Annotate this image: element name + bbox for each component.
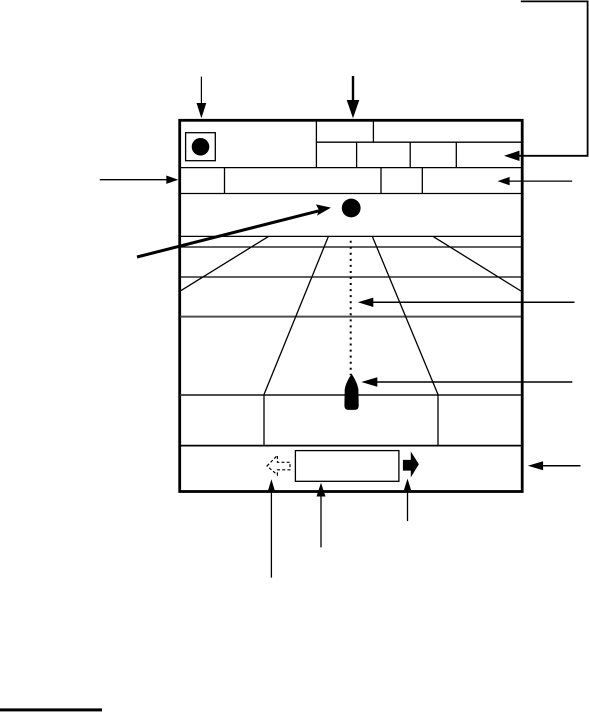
- footnote rule: [0, 708, 102, 711]
- left arrow shaft: [100, 179, 168, 181]
- row2 divider x422: [421, 168, 423, 194]
- right small arrow head: [498, 177, 510, 185]
- top right connector line: [519, 1, 588, 155]
- icon box: [186, 133, 216, 161]
- range line y395 (gray): [181, 394, 522, 396]
- up arrow left shaft: [270, 490, 272, 578]
- bottom right arrow shaft: [541, 465, 581, 467]
- down arrow 2 shaft: [352, 76, 354, 101]
- header divider x410: [409, 142, 411, 167]
- value rectangle: [295, 451, 399, 482]
- road outer right edge: [433, 236, 521, 291]
- header line y167: [181, 167, 522, 169]
- row2 divider x224: [224, 168, 226, 194]
- lane divider x264: [263, 395, 265, 446]
- bottom right arrow head: [528, 461, 543, 470]
- header divider x356: [356, 142, 358, 167]
- bottom bar top line y445: [181, 445, 522, 447]
- diagonal arrow shaft: [137, 211, 319, 257]
- header divider x456: [455, 142, 457, 167]
- range line y247: [181, 246, 522, 248]
- dashed outline arrow: [267, 455, 290, 475]
- waypoint circle: [342, 199, 361, 218]
- header divider x373: [372, 120, 374, 142]
- course dotted line: [350, 241, 352, 376]
- down arrow 2 head: [347, 100, 360, 118]
- header line y193: [181, 193, 522, 195]
- up arrow right shaft: [407, 489, 409, 521]
- up arrow middle shaft: [320, 495, 322, 547]
- diagonal arrow head: [316, 204, 331, 215]
- arrow to boat head: [361, 377, 377, 386]
- left arrow head: [166, 176, 178, 184]
- road outer left edge: [181, 236, 269, 290]
- arrow to boat shaft: [375, 381, 572, 383]
- header line y142: [316, 141, 521, 143]
- lane divider x438: [437, 395, 439, 446]
- right small arrow shaft: [509, 180, 573, 182]
- range line y277: [181, 276, 522, 278]
- up arrow right head: [404, 479, 411, 491]
- horizon line y236: [181, 235, 522, 237]
- header divider x316: [315, 120, 317, 167]
- road inner right edge: [372, 236, 438, 394]
- own ship boat icon: [344, 374, 358, 410]
- arrow to dotted line shaft: [371, 301, 575, 303]
- up arrow left head: [268, 479, 275, 491]
- down arrow 1 head: [197, 103, 207, 118]
- solid right arrow: [403, 452, 419, 478]
- up arrow middle head: [317, 483, 326, 497]
- road inner left edge: [264, 236, 328, 394]
- row2 divider x381: [380, 168, 382, 194]
- range line y316 (gray): [181, 316, 522, 318]
- screen outer border: [180, 120, 523, 491]
- top right connector arrowhead: [504, 151, 520, 161]
- arrow to dotted line head: [358, 298, 374, 307]
- down arrow 1 shaft: [200, 77, 202, 105]
- icon dot: [192, 138, 210, 156]
